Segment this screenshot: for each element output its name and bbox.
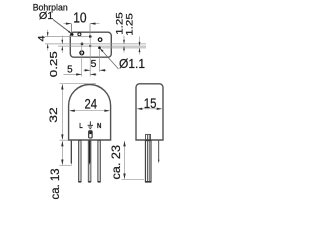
dim 5b line left bbox=[84, 69, 91, 71]
svg-text:24: 24 bbox=[84, 96, 97, 112]
svg-text:L: L bbox=[79, 121, 83, 130]
dim 1.25a arrow down bbox=[123, 40, 125, 44]
dim 1.25b arrow down bbox=[139, 42, 141, 46]
dim 4 arrow up bbox=[47, 44, 49, 48]
dim 0.25 stem top bbox=[61, 36, 63, 44]
svg-text:ca. 13: ca. 13 bbox=[50, 169, 62, 200]
dim 15 line bbox=[137, 108, 161, 110]
dim 5b arrow right bbox=[100, 69, 106, 71]
pin P4 bbox=[98, 141, 101, 182]
dim 0.25 stem bottom bbox=[61, 46, 63, 53]
dim 5a line right bbox=[90, 73, 96, 75]
hole dot H5 bbox=[81, 43, 84, 46]
dim 32 arrow down bbox=[61, 134, 63, 140]
hole dot H3 bbox=[89, 35, 92, 38]
drill-plan outline bbox=[70, 32, 111, 57]
dim 4 stem top bbox=[47, 30, 49, 37]
svg-text:5: 5 bbox=[67, 64, 73, 75]
dim 1.25a stem bottom bbox=[123, 46, 125, 52]
hole dot H2 bbox=[71, 33, 74, 36]
pin P3 long bbox=[88, 141, 91, 182]
dim 32 ext top bbox=[60, 83, 97, 85]
svg-text:32: 32 bbox=[48, 107, 60, 123]
dim 32 ext bottom bbox=[60, 139, 69, 141]
hole dot H7 bbox=[98, 46, 101, 49]
dim 10 line right bbox=[90, 23, 100, 25]
indicator window bbox=[89, 131, 92, 138]
svg-text:Ø1: Ø1 bbox=[39, 10, 54, 22]
dim 24 line bbox=[70, 110, 109, 112]
pin P3 short (earth) bbox=[89, 141, 91, 162]
front body outline bbox=[69, 85, 111, 141]
dim 5a line left bbox=[64, 73, 82, 75]
dim 10 line left bbox=[64, 23, 72, 25]
dim 4 arrow down bbox=[47, 32, 49, 36]
dim ca23 arrow down bbox=[123, 174, 125, 180]
svg-text:N: N bbox=[97, 121, 101, 130]
side body outline bbox=[136, 84, 163, 140]
dim 32 arrow up bbox=[61, 84, 63, 90]
pin collar bbox=[146, 134, 151, 139]
dim 4 stem bottom bbox=[47, 44, 49, 51]
svg-text:ca. 23: ca. 23 bbox=[111, 145, 123, 180]
dim 5a arrow left bbox=[76, 73, 82, 75]
dim 10 ext left bbox=[70, 24, 72, 33]
dim 10 ext right bbox=[89, 24, 91, 36]
dim 1.25a arrow up bbox=[123, 46, 125, 50]
hole ring H8 bbox=[80, 51, 84, 55]
hole ring H4 bbox=[98, 38, 102, 42]
dim ca13 arrow down bbox=[61, 160, 63, 166]
dim 0.25 arrow down bbox=[61, 40, 63, 44]
dim 15 arrow right bbox=[157, 108, 163, 110]
dim 0.25 arrow up bbox=[61, 46, 63, 50]
svg-text:0.25: 0.25 bbox=[49, 51, 60, 78]
dim 15 arrow left bbox=[137, 108, 143, 110]
ext H6 down bbox=[89, 37, 91, 77]
svg-text:10: 10 bbox=[73, 10, 86, 26]
hole dot H6 bbox=[89, 45, 91, 47]
hole ring H1 bbox=[78, 33, 81, 36]
dim 1.25b stem bottom bbox=[139, 48, 141, 55]
dim 1.25b stem top bbox=[139, 37, 141, 47]
ext row1 line bbox=[45, 36, 89, 38]
dim 1.25a stem top bbox=[123, 36, 125, 44]
side pin bundle bbox=[145, 141, 151, 182]
pin P1 (short earth pin) bbox=[70, 141, 72, 163]
dim 5b arrow left bbox=[85, 69, 91, 71]
side short pin bbox=[158, 141, 160, 161]
ext rowA line bbox=[45, 43, 146, 45]
leader dia1.1 bbox=[100, 49, 118, 69]
ext rowC line bbox=[102, 47, 147, 49]
leader dia1 arrow bbox=[68, 31, 72, 34]
leader dia1.1 arrow bbox=[100, 48, 104, 52]
earth symbol bbox=[88, 121, 93, 128]
dim 10 arrow right bbox=[90, 23, 96, 25]
dim 5a arrow right bbox=[90, 73, 96, 75]
dim ca13 arrow up bbox=[61, 141, 63, 147]
dim 1.25b arrow up bbox=[139, 48, 141, 52]
dim 10 arrow left bbox=[66, 23, 72, 25]
dim ca23 line bbox=[124, 141, 126, 178]
dim ca23 arrow up bbox=[123, 141, 125, 147]
svg-text:5: 5 bbox=[91, 59, 97, 70]
ext rowB line bbox=[58, 45, 146, 47]
ext H7 down bbox=[99, 49, 101, 72]
svg-text:1.25: 1.25 bbox=[114, 12, 124, 34]
svg-text:4: 4 bbox=[37, 36, 48, 42]
dim ca23 ext bottom bbox=[122, 178, 145, 180]
dim 32 line bbox=[61, 84, 63, 139]
dim 5b line right bbox=[100, 69, 107, 71]
pin P2 bbox=[79, 141, 82, 182]
svg-text:Ø1.1: Ø1.1 bbox=[119, 57, 145, 71]
ext H8 down bbox=[81, 45, 83, 77]
dim ca13 ext bottom bbox=[60, 164, 72, 166]
svg-text:1.25: 1.25 bbox=[125, 13, 135, 36]
leader dia1 bbox=[53, 20, 71, 34]
dim 24 arrow left bbox=[69, 110, 75, 112]
dim 24 arrow right bbox=[104, 110, 110, 112]
dim ca13 line bbox=[61, 141, 63, 164]
